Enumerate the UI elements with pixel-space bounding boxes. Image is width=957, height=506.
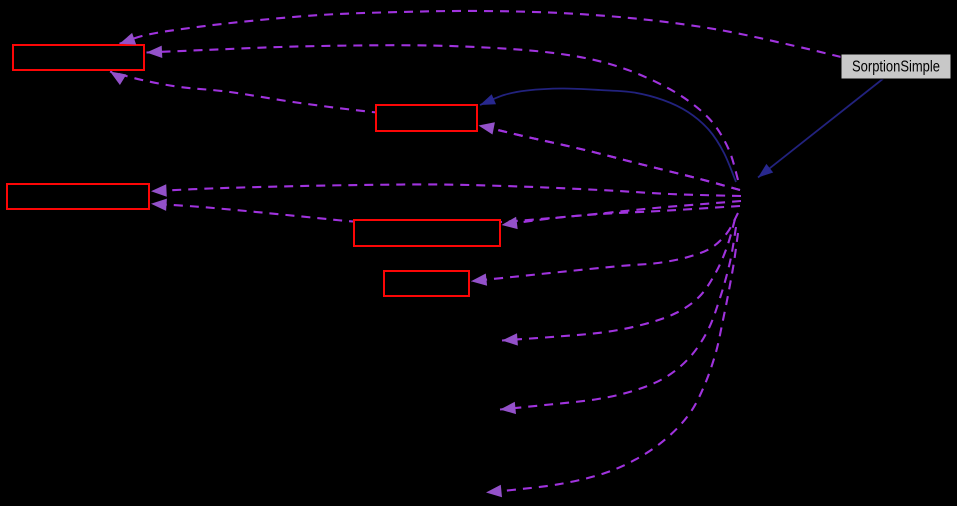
svg-text:SorptionSimple: SorptionSimple [852,59,940,76]
